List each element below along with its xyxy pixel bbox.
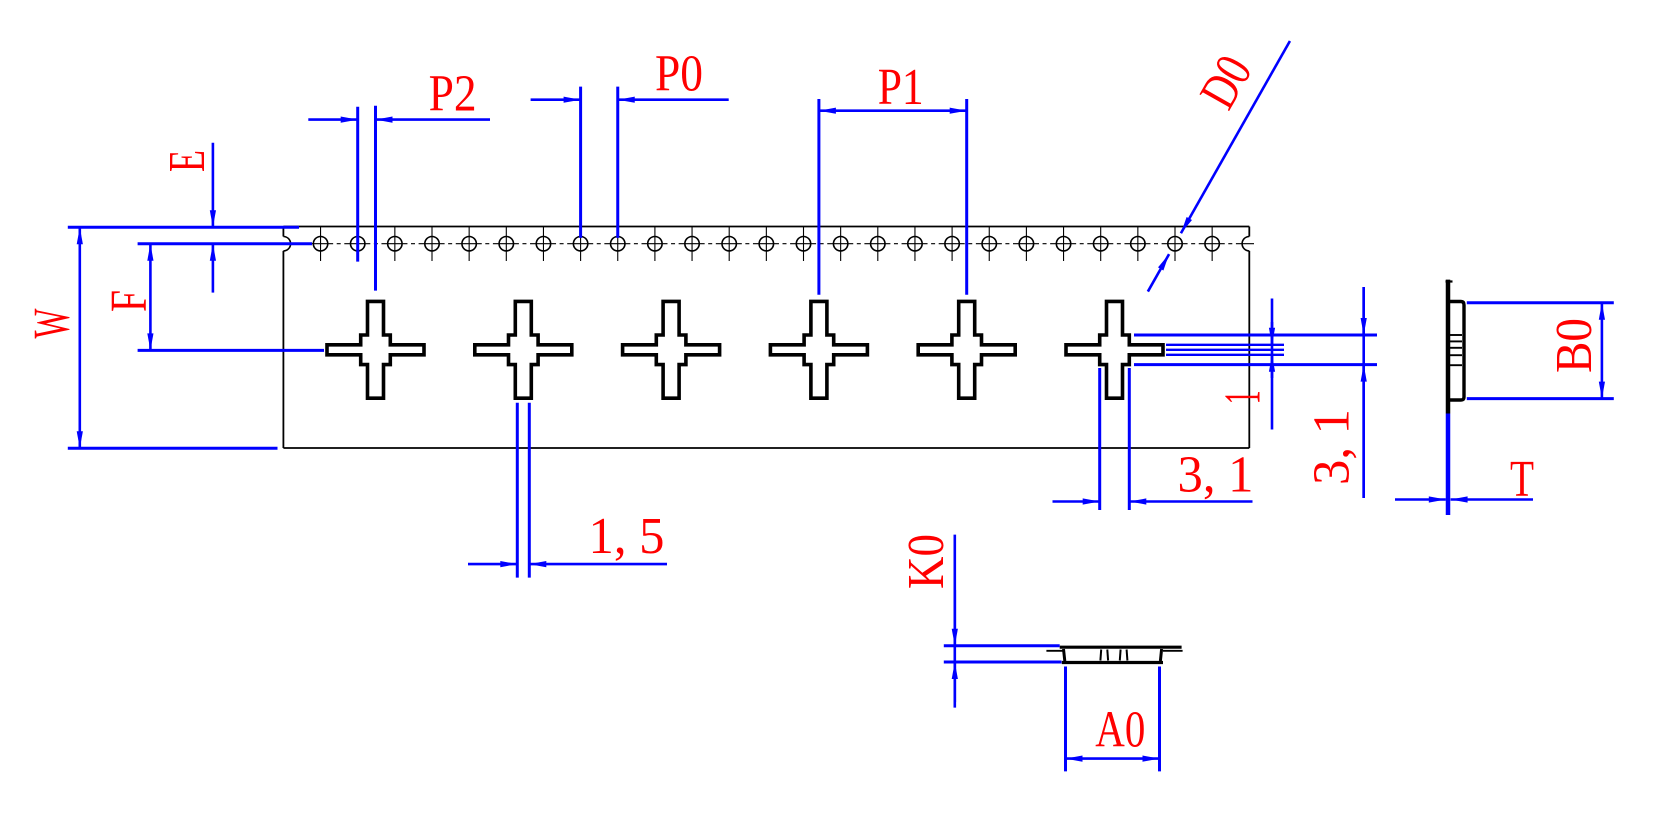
dimension F extension lines (138, 242, 312, 245)
dimension 1,5 (468, 563, 517, 566)
pocket cross 4 (770, 301, 867, 398)
dimension E (212, 143, 215, 227)
dimension P2 extension lines (356, 107, 359, 262)
svg-text:E: E (159, 150, 216, 172)
dimension B0 (1601, 303, 1604, 399)
dimension T extension line (1446, 414, 1451, 516)
dimension K0 extension lines (944, 644, 1060, 647)
svg-text:T: T (1510, 451, 1534, 508)
dimension W extension lines (68, 226, 299, 229)
svg-text:A0: A0 (1095, 702, 1145, 759)
svg-text:3, 1: 3, 1 (1304, 409, 1361, 485)
dimension P0 (531, 98, 581, 101)
svg-text:1, 5: 1, 5 (589, 508, 665, 565)
dimension P1 extension lines (817, 99, 820, 295)
svg-text:P1: P1 (878, 59, 924, 116)
dimension 3,1 horizontal (1053, 500, 1100, 503)
dimension T (1395, 498, 1446, 501)
dimension W (79, 227, 82, 448)
pocket cross 6 (1066, 301, 1163, 398)
dimension P1 (819, 109, 967, 112)
dimension P0 extension lines (579, 87, 582, 238)
extension lines of pocket slots (1134, 334, 1377, 337)
pocket cross 3 (623, 301, 720, 398)
section view pocket tray (1046, 647, 1182, 662)
pocket cross 2 (475, 301, 572, 398)
dimension A0 (1066, 757, 1160, 760)
dimension 1 (slot width) (1271, 299, 1274, 430)
svg-text:W: W (24, 309, 81, 339)
svg-text:3, 1: 3, 1 (1178, 447, 1254, 504)
svg-text:1: 1 (1214, 390, 1271, 404)
side view tape web (1446, 280, 1451, 414)
pocket cross 5 (918, 301, 1015, 398)
svg-text:K0: K0 (898, 534, 955, 589)
dimension B0 extension lines (1467, 301, 1614, 304)
dimension 1,5 extension lines (516, 403, 519, 578)
side view slot lines (1450, 335, 1462, 365)
sprocket hole centerline (dash-dot) (270, 243, 1254, 245)
pocket cross 1 (327, 301, 424, 398)
dimension A0 extension lines (1064, 667, 1067, 772)
svg-text:P0: P0 (655, 46, 703, 103)
svg-text:B0: B0 (1546, 318, 1603, 373)
sprocket holes row (313, 227, 1219, 261)
dimension 3,1 horizontal extension lines (1098, 368, 1101, 510)
side view pocket profile (1448, 302, 1464, 401)
svg-text:F: F (101, 290, 158, 312)
dimension K0 (953, 535, 956, 708)
leader D0 (1181, 41, 1290, 233)
dimension F (149, 244, 152, 351)
carrier tape outline (283, 227, 1249, 449)
section view slot walls (1100, 650, 1127, 661)
svg-text:P2: P2 (429, 66, 477, 123)
dimension 3,1 (vertical) (1362, 287, 1365, 498)
dimension P2 (308, 118, 357, 121)
